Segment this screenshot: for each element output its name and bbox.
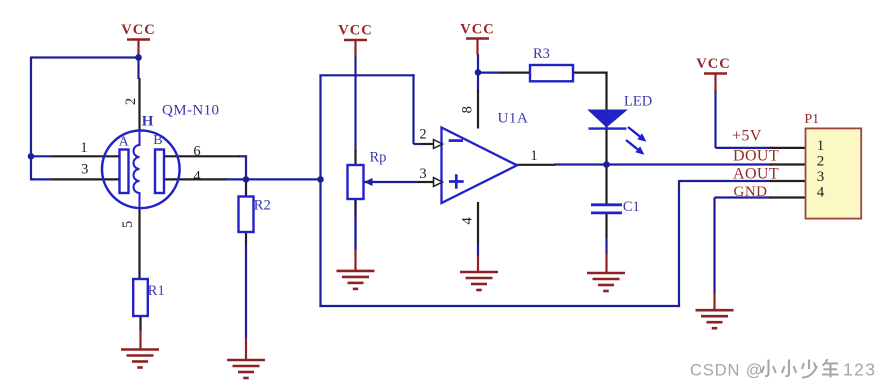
- svg-text:VCC: VCC: [460, 22, 494, 38]
- svg-text:3: 3: [419, 166, 426, 182]
- svg-text:3: 3: [81, 161, 88, 177]
- svg-text:4: 4: [193, 168, 201, 184]
- svg-text:4: 4: [459, 217, 475, 225]
- svg-text:123: 123: [843, 359, 876, 379]
- svg-text:VCC: VCC: [696, 56, 730, 72]
- svg-text:QM-N10: QM-N10: [162, 103, 219, 119]
- svg-text:6: 6: [193, 143, 200, 159]
- svg-text:8: 8: [459, 106, 475, 113]
- svg-text:2: 2: [419, 127, 426, 143]
- svg-text:AOUT: AOUT: [733, 165, 779, 182]
- svg-text:VCC: VCC: [121, 22, 155, 38]
- svg-text:2: 2: [817, 153, 825, 169]
- svg-text:5: 5: [120, 221, 136, 228]
- svg-text:CSDN @: CSDN @: [690, 361, 764, 379]
- svg-text:H: H: [142, 113, 154, 129]
- svg-text:1: 1: [530, 148, 537, 164]
- svg-text:P1: P1: [804, 112, 819, 127]
- svg-text:4: 4: [817, 185, 825, 201]
- svg-text:U1A: U1A: [498, 111, 529, 127]
- svg-text:Rp: Rp: [370, 149, 387, 165]
- svg-text:LED: LED: [624, 93, 652, 109]
- svg-text:R3: R3: [533, 46, 550, 62]
- svg-text:DOUT: DOUT: [733, 147, 779, 164]
- svg-text:1: 1: [80, 140, 87, 156]
- svg-text:A: A: [119, 134, 130, 149]
- svg-text:B: B: [153, 133, 162, 148]
- svg-text:+5V: +5V: [732, 127, 762, 144]
- svg-text:2: 2: [123, 98, 139, 105]
- svg-text:R2: R2: [254, 197, 271, 213]
- svg-text:1: 1: [817, 138, 825, 154]
- svg-text:GND: GND: [734, 184, 768, 200]
- svg-text:R1: R1: [148, 283, 165, 299]
- svg-text:3: 3: [817, 169, 825, 185]
- svg-text:C1: C1: [623, 199, 640, 215]
- svg-text:VCC: VCC: [338, 23, 372, 39]
